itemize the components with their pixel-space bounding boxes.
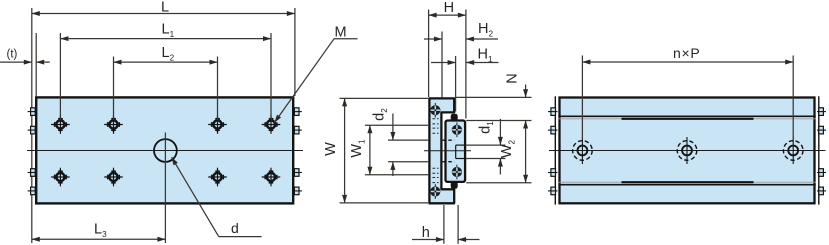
dimension (t)	[35, 33, 37, 97]
svg-text:(t): (t)	[7, 49, 18, 61]
right view hole 3	[783, 137, 803, 164]
middle view rail block	[446, 121, 466, 182]
right view right end-face line	[818, 96, 820, 204]
dimension L2	[113, 57, 115, 121]
svg-text:W1: W1	[349, 139, 366, 158]
svg-text:W2: W2	[499, 139, 516, 158]
middle view seal bottom	[451, 181, 458, 189]
dimension L3	[32, 238, 166, 240]
svg-text:n×P: n×P	[673, 45, 700, 61]
svg-text:d1: d1	[478, 121, 495, 134]
middle view groove lines (d1 refs)	[456, 144, 467, 146]
svg-text:d: d	[231, 220, 239, 236]
right view faint joint lines	[558, 119, 815, 182]
dimension h	[443, 205, 445, 244]
right view edge tab ticks left	[548, 112, 558, 191]
dimension nxP	[581, 56, 583, 139]
dimension L1	[59, 33, 61, 121]
svg-text:H1: H1	[478, 47, 493, 64]
svg-text:h: h	[422, 225, 430, 241]
left view horizontal centerline	[27, 150, 303, 152]
left view left end-face line	[31, 8, 33, 243]
dimension H	[428, 10, 430, 98]
dimension N	[456, 96, 532, 98]
left view edge tab ticks left	[28, 112, 37, 191]
middle view table screw top	[430, 103, 440, 118]
left view edge tabs left	[31, 108, 36, 195]
svg-text:H2: H2	[478, 21, 493, 38]
middle view hidden screw-hole dashes	[432, 119, 438, 183]
left view center hole d	[154, 139, 177, 162]
right view rail segment line bottom	[622, 181, 754, 183]
right view edge tabs right	[819, 108, 824, 195]
right view internal line bottom full	[558, 184, 815, 186]
middle view table cross-section	[429, 98, 454, 203]
right view left end-face line	[554, 96, 556, 204]
svg-text:N: N	[505, 73, 521, 83]
dimension d1	[499, 119, 501, 145]
right view edge tab ticks right	[817, 112, 826, 191]
right view centerline	[549, 149, 826, 151]
svg-text:d2: d2	[372, 108, 389, 121]
middle view centerline	[424, 150, 471, 152]
middle view table screw bottom	[430, 184, 440, 199]
dimension H1	[455, 56, 457, 112]
label d with leader to center hole	[219, 236, 262, 238]
left view tapped holes M (8x)	[51, 115, 280, 186]
left view right extension line	[294, 8, 296, 96]
right view internal line top full	[558, 115, 815, 117]
svg-text:W: W	[323, 142, 339, 156]
dimension W	[340, 97, 429, 99]
middle view hidden hole lines in lip (d2 refs)	[443, 139, 455, 141]
middle view seal top	[451, 114, 458, 122]
left view plate body	[36, 97, 293, 203]
left view edge tab ticks right	[293, 112, 302, 191]
middle view block screw bottom	[452, 165, 462, 180]
dimension W2	[466, 182, 531, 184]
right view hole 1	[573, 137, 593, 164]
left view center hole vertical centerline / L3 extension	[164, 133, 166, 244]
right view edge tabs left	[551, 108, 556, 195]
svg-text:L: L	[161, 0, 169, 16]
dimension d2	[388, 139, 428, 141]
dimension L	[32, 13, 295, 15]
svg-text:L3: L3	[94, 222, 107, 239]
left view edge tabs right	[294, 108, 299, 195]
right view rail segment line top	[622, 118, 754, 120]
middle view groove vertical tick	[455, 145, 457, 158]
dimension H2	[441, 32, 443, 98]
svg-text:M: M	[335, 25, 347, 41]
middle view block screw top	[452, 123, 462, 138]
svg-text:H: H	[444, 0, 454, 16]
dimension W1	[365, 124, 428, 126]
svg-text:L1: L1	[162, 22, 175, 39]
right view hole 2	[677, 137, 697, 164]
svg-text:L2: L2	[162, 45, 175, 62]
right view body	[560, 98, 815, 204]
